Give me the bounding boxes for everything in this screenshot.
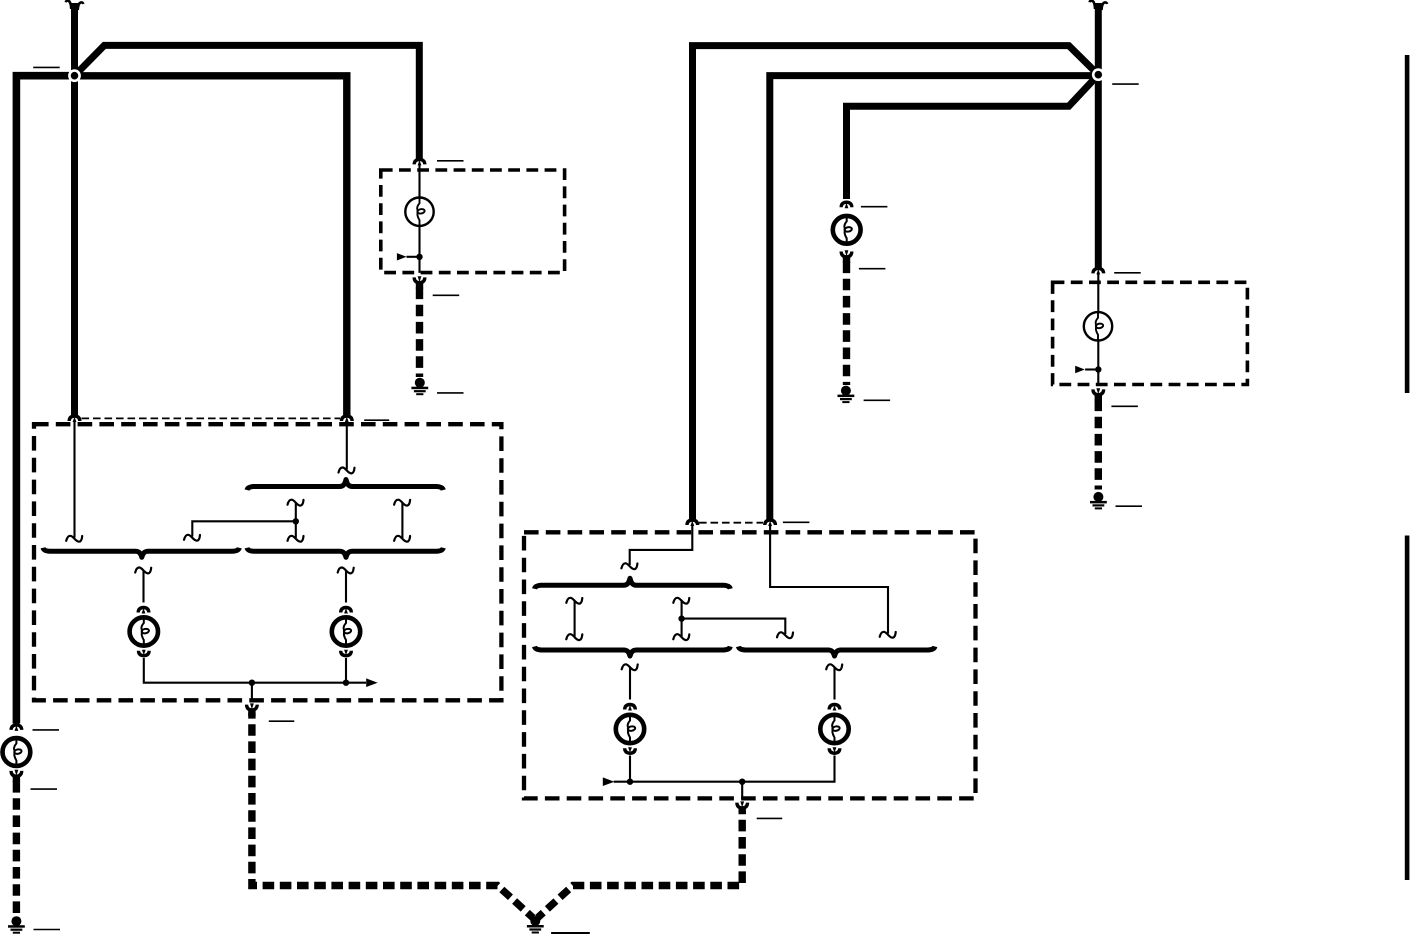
socket cap above middle lamp [840,201,854,209]
socket cap below right bulb [339,650,353,658]
junction dot: bus [343,680,349,686]
box: right illumination lamp [1053,282,1248,384]
exit connector below left park lamp [9,770,23,783]
connector prongs at top of left feed [66,1,84,10]
wire: pair2 [681,601,683,637]
junction dot in right illumination box [1095,366,1101,372]
bracket: lower-right connector strip [738,647,935,657]
exit connector below left illumination box [413,276,427,289]
label: left box ground wire [269,720,295,722]
label: left splice [33,66,60,68]
label: left park lamp connector [33,729,60,731]
wire: bulb to box bottom [418,226,420,273]
ground wire: right illumination lamp [1095,400,1102,490]
wire: bus [614,756,835,782]
wire: pair2 [401,503,403,538]
connector link line [82,417,341,419]
connector curl: pair2 top [673,598,689,604]
connector curl: left bulb lead top [622,664,638,670]
socket cap above right bulb [828,703,842,711]
wire: pin2 lead [346,421,348,470]
label: middle lamp connector [861,206,888,208]
wire: left bulb to bus [144,658,366,683]
wire: arrow stub [407,256,420,258]
socket cap above left park lamp [9,723,23,731]
connector curl: pair1 bottom [288,536,304,542]
wire: to left bulb [142,571,144,603]
bulb: right tail lamp [616,714,644,744]
label: left ground [34,929,61,931]
wire: into left illumination bulb [418,164,420,198]
entry connector pin 2 of right combination box [763,518,777,526]
box: left illumination lamp [381,170,565,273]
socket cap above left bulb [137,606,151,614]
ground: right illumination lamp [1090,492,1107,510]
wire: branch to middle lamp [847,75,1099,199]
socket cap below right-box left bulb [623,747,637,755]
wire: bus to box bottom [251,683,253,701]
junction: left splice [68,69,81,82]
wire: bus to box bottom [741,782,743,799]
wire: branch to right box pin 2 [770,76,1099,519]
entry connector pin 1 of left combination box [68,414,82,422]
socket cap above right bulb [339,606,353,614]
exit connector below right box [735,801,749,814]
wire: branch to right box pin 1 [693,46,1099,519]
arrow: to other circuit [1075,366,1085,373]
bulb: right illumination lamp [1084,311,1112,341]
label: right box ground wire [757,817,783,819]
exit connector below right illumination box [1091,388,1105,401]
bulb: left tail lamp [130,616,158,646]
wire: branch to left strip [192,521,295,536]
bracket: lower-left connector strip [535,647,731,657]
connector curl: pair1 top [288,500,304,506]
connector curl: right bulb lead top [826,664,842,670]
connector curl: pair2 top [394,500,410,506]
wire: right bulb to bus [345,658,347,683]
connector curl: pair2 bottom [673,634,689,640]
wire: left bulb to bus [629,756,631,782]
wire: to left bulb [629,667,631,699]
connector curl: pair1 bottom [566,634,582,640]
entry connector pin 1 of right combination box [685,518,699,526]
label: exit connector [433,294,460,296]
bracket: upper connector strip [247,480,443,491]
entry connector pin 2 of left combination box [340,414,354,422]
junction dot: bus exit [249,680,255,686]
box: right combination lamp assembly [524,532,976,798]
bracket: upper connector strip [535,578,731,589]
label: right box connector [783,521,810,523]
ground: middle lamp [838,386,855,404]
connector curl: right bulb lead top [338,568,354,574]
bulb: left park lamp [3,737,31,767]
socket cap above left bulb [623,703,637,711]
label: middle lamp ground wire [859,268,886,270]
bulb: right stop lamp [820,714,848,744]
connector curl: branch end [777,632,793,638]
exit connector below left box [245,703,259,716]
arrow: bus from other circuit [603,777,615,786]
bulb: middle lamp [833,215,861,245]
bracket: lower-right connector strip [247,548,443,558]
junction dot: bus exit [739,779,745,785]
junction: right splice [1092,68,1105,81]
ground: left park lamp [8,916,25,934]
wire: to right bulb [345,571,347,603]
label: entry connector [1114,272,1141,274]
wire: right feed vertical [1095,3,1102,268]
box: left combination lamp assembly [34,424,501,700]
wire: pin1 lead [73,421,75,538]
socket cap below left bulb [137,650,151,658]
wire: arrow stub [1085,368,1098,370]
arrow: bus continues [366,678,378,687]
wire: bulb to box bottom [1097,341,1099,385]
arrow: to other circuit [397,253,407,260]
entry connector into left illumination box [413,158,427,166]
label: exit connector [1111,405,1138,407]
wire: into right illumination bulb [1097,273,1099,312]
wire: pair1 [574,601,576,637]
ground: common body ground [527,916,544,934]
wire: left feed vertical [71,3,78,415]
junction dot on pair1 [293,518,299,524]
connector curl: pair1 top [566,598,582,604]
junction dot on pair2 [678,615,684,621]
junction dot in left illumination box [416,254,422,260]
label: common ground [551,932,590,934]
wire: pair1 [295,503,297,538]
connector curl: left bulb lead top [135,568,151,574]
ground wire: right run to common ground [538,811,743,918]
connector curl: branch end [184,535,200,541]
exit connector below middle lamp [840,250,854,263]
ground: left illumination lamp [411,378,428,396]
ground wire: left park lamp [13,781,20,915]
connector curl: pin1 lead end [621,563,637,569]
connector curl: pin1 lead end [66,536,82,542]
page edge bar lower [1405,536,1410,881]
wire: pin2 lead [770,525,888,634]
wire: branch to combination meter pin 2 [75,76,347,415]
connector curl: pin2 lead end [339,468,355,474]
connector curl: pin2 lead end [880,632,896,638]
bracket: lower-left connector strip [43,548,239,558]
label: entry connector [437,160,464,162]
label: middle ground [864,399,891,401]
wire: branch to right strip [682,619,786,634]
label: ground [437,392,464,394]
label: left box connector [364,419,389,421]
ground wire: left illumination lamp [416,288,423,378]
junction dot: bus left bulb [627,779,633,785]
ground wire: middle lamp [843,262,850,386]
wire: to right bulb [833,667,835,699]
wire: pin1 lead [630,525,693,565]
bulb: left stop lamp [332,616,360,646]
connector prongs at top of right feed [1090,1,1108,10]
entry connector into right illumination box [1091,267,1105,275]
bulb: left illumination lamp [405,197,433,227]
wire: branch to left park lamp [16,76,74,724]
label: ground [1116,505,1143,507]
label: left park lamp ground wire [31,788,58,790]
label: right splice [1112,83,1139,85]
ground wire: left run to common ground [252,713,533,918]
connector curl: pair2 bottom [394,536,410,542]
wire: branch to illumination lamp box [75,45,420,158]
socket cap below right-box right bulb [828,747,842,755]
connector link line [699,522,763,524]
page edge bar upper [1405,55,1410,393]
